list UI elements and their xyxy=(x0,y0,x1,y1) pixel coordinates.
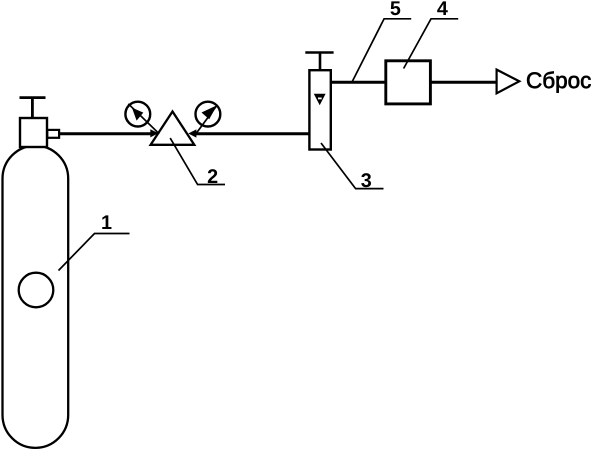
chamber 4 (box) xyxy=(386,61,431,104)
wire: pipe from regulator to rotameter xyxy=(195,132,311,135)
left gauge needle arrowhead xyxy=(132,108,143,121)
leader line for 5 xyxy=(352,19,411,82)
right gauge circle xyxy=(196,102,221,127)
regulator 2 (triangle) xyxy=(151,112,195,145)
rotameter float notch xyxy=(318,98,322,100)
wire: pipe from rotameter to chamber 4 xyxy=(330,81,386,84)
leader line for 3 xyxy=(321,143,384,189)
rotameter 3 (body) xyxy=(309,70,330,149)
right gauge needle/stem line to pipe xyxy=(196,106,217,134)
valve outlet fitting xyxy=(47,130,59,138)
svg-text:Сброс: Сброс xyxy=(526,68,591,93)
svg-text:3: 3 xyxy=(361,170,372,192)
cylinder valve handle bar xyxy=(20,96,46,99)
gas cylinder 1 (bottle body) xyxy=(3,146,69,448)
cylinder port circle xyxy=(19,273,54,308)
rotameter float (filled triangle) xyxy=(314,94,326,106)
cylinder valve body xyxy=(20,118,47,147)
wire: pipe from chamber to discharge arrow xyxy=(431,81,498,84)
left gauge circle xyxy=(125,102,150,127)
cylinder valve stem xyxy=(31,98,34,118)
svg-text:4: 4 xyxy=(437,0,448,20)
svg-text:1: 1 xyxy=(101,212,112,234)
rotameter valve handle bar xyxy=(305,51,333,54)
left gauge needle/stem line to pipe xyxy=(128,104,159,134)
leader line for 1 xyxy=(59,234,130,271)
flow arrowhead into regulator (left) xyxy=(150,129,158,137)
rotameter valve stem xyxy=(319,53,322,71)
leader line for 4 xyxy=(404,19,459,69)
right gauge needle arrowhead xyxy=(202,105,218,119)
flow arrowhead out of regulator (right, pointing left) xyxy=(188,129,196,137)
svg-text:5: 5 xyxy=(390,0,401,20)
wire: pipe from cylinder valve to regulator xyxy=(59,132,152,135)
svg-text:2: 2 xyxy=(207,166,218,188)
discharge open arrow xyxy=(497,70,520,94)
leader line for 2 xyxy=(170,138,225,184)
